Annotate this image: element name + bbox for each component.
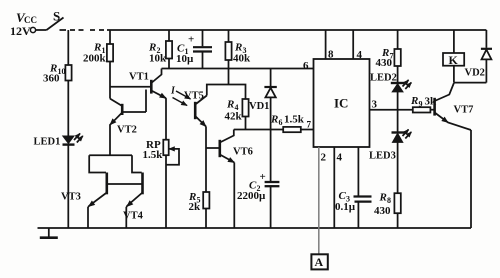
svg-text:8: 8: [387, 196, 391, 205]
diode VD1: [270, 69, 272, 88]
wire VT7 emitter to ground rail: [470, 130, 472, 228]
transistor VT4: [141, 173, 144, 195]
resistor R2: [166, 41, 172, 59]
wire RP to ground rail: [165, 155, 167, 228]
potentiometer RP: [163, 140, 168, 156]
light arrows into VT5: [173, 91, 191, 106]
wire R10 column top: [67, 30, 69, 65]
svg-text:+: +: [260, 171, 266, 183]
wire VT5/R4 bracket: [207, 85, 246, 100]
svg-text:12V: 12V: [10, 24, 31, 38]
svg-text:IC: IC: [334, 96, 348, 111]
transistor VT3: [106, 173, 109, 195]
wire R3 column top: [228, 30, 230, 42]
wire pin 4 top: [352, 30, 354, 59]
svg-text:1.5k: 1.5k: [143, 149, 164, 161]
svg-text:VT1: VT1: [129, 72, 149, 83]
wire pin7 line: [234, 129, 314, 131]
wire R10 to LED1: [67, 81, 69, 137]
resistor R5: [203, 192, 209, 209]
svg-text:VT3: VT3: [61, 192, 81, 203]
terminal A box: [311, 254, 327, 269]
resistor R6: [283, 127, 301, 132]
wire R1 to VT1 base node: [109, 62, 111, 99]
wire pin 8: [325, 30, 327, 59]
svg-text:R: R: [379, 192, 387, 204]
wire R2 bottom: [168, 59, 170, 69]
wire LED3 to R8: [397, 142, 399, 193]
wire pin 2 to A: [318, 147, 320, 254]
wire K to VT7 collector node: [453, 66, 455, 83]
svg-text:+: +: [188, 34, 194, 46]
svg-text:A: A: [315, 255, 324, 269]
svg-text:S: S: [53, 9, 60, 24]
wire R2 column top: [168, 30, 170, 41]
wire VT2 emitter down: [109, 128, 111, 155]
wire R7 column top: [397, 30, 399, 49]
wire VT3 collector branch: [89, 155, 106, 172]
wire LED2 to pin3 node: [397, 92, 399, 110]
wire top rail: [107, 29, 486, 31]
LED D1 (LED1): [63, 136, 74, 143]
svg-text:1.5k: 1.5k: [284, 114, 305, 126]
wire LED1 to ground rail: [67, 145, 69, 228]
svg-text:R: R: [270, 114, 278, 126]
svg-text:4: 4: [337, 152, 343, 164]
resistor R1: [107, 44, 113, 62]
capacitor C2: [265, 181, 280, 183]
resistor R3: [225, 42, 231, 60]
svg-text:2: 2: [321, 152, 327, 164]
svg-text:10µ: 10µ: [176, 53, 194, 65]
svg-text:10k: 10k: [149, 53, 167, 65]
svg-text:VD1: VD1: [249, 101, 269, 112]
wire R8 to ground: [397, 213, 399, 228]
wire C1 column top: [202, 30, 204, 46]
svg-text:7: 7: [307, 120, 312, 130]
wire VT3-VT4 base link: [107, 183, 143, 185]
wire pin3 node to LED3: [397, 110, 399, 132]
wire VT3/VT4 tee: [89, 154, 132, 156]
transistor VT1: [150, 80, 153, 94]
wire R1 column top: [109, 30, 111, 44]
wire R7 to LED2: [397, 66, 399, 83]
wire VT5 emitter / VT6 base column: [205, 127, 207, 193]
LED D3 (LED3): [392, 131, 405, 133]
svg-text:VT6: VT6: [233, 147, 253, 158]
wire VT3 emitter to ground: [87, 207, 89, 228]
phototransistor VT5: [194, 102, 197, 119]
svg-text:R: R: [226, 99, 234, 111]
svg-text:2k: 2k: [189, 201, 202, 213]
wire K column top: [453, 30, 455, 53]
wire pin 4 bottom: [333, 147, 335, 228]
svg-text:VT7: VT7: [454, 105, 474, 116]
svg-text:0.1µ: 0.1µ: [335, 201, 356, 213]
transistor VT2: [121, 104, 124, 115]
transistor VT7: [433, 98, 436, 116]
relay K box: [443, 53, 464, 66]
wire R4 bottom: [245, 117, 247, 130]
wire VT1 emitter to RP: [165, 98, 167, 140]
svg-text:42k: 42k: [225, 111, 243, 123]
resistor R7: [394, 49, 400, 66]
capacitor C1: [193, 46, 212, 48]
transistor VT6: [206, 147, 219, 149]
wire pin6 line: [162, 68, 314, 70]
ground symbol: [48, 228, 50, 237]
LED D2 (LED2): [391, 82, 404, 84]
resistor R4: [242, 99, 248, 117]
svg-text:I: I: [170, 86, 176, 97]
wire C2 to ground: [270, 186, 272, 228]
svg-text:LED2: LED2: [370, 73, 397, 84]
wire K node to VD2: [454, 82, 487, 84]
svg-text:4: 4: [357, 49, 363, 61]
svg-text:R: R: [410, 95, 418, 107]
svg-text:6: 6: [303, 60, 309, 72]
svg-text:430: 430: [374, 205, 391, 217]
wire VT2 base link: [124, 90, 147, 113]
diode VD2: [481, 48, 492, 50]
wire VT4 collector branch: [132, 155, 142, 172]
svg-text:200k: 200k: [83, 53, 107, 65]
wire top rail dashed section: [60, 29, 105, 31]
wire VT1 base line: [110, 86, 150, 88]
node VCC terminal: [30, 27, 35, 32]
svg-text:VT4: VT4: [123, 211, 144, 222]
wire R5 to ground: [205, 209, 207, 229]
wire VCC lead: [36, 29, 47, 31]
svg-text:VT2: VT2: [117, 125, 137, 136]
wire VT6 emitter to ground: [233, 163, 235, 229]
svg-text:430: 430: [376, 57, 393, 69]
wire pin 3 line: [370, 109, 413, 111]
svg-text:9: 9: [419, 100, 423, 109]
switch S blade: [47, 18, 64, 31]
resistor R9: [413, 107, 431, 112]
svg-text:40k: 40k: [233, 53, 251, 65]
svg-text:3: 3: [372, 99, 378, 111]
svg-text:VD2: VD2: [465, 68, 485, 79]
svg-text:2200µ: 2200µ: [237, 190, 266, 202]
svg-text:LED3: LED3: [369, 151, 396, 162]
wire C3 branch: [357, 147, 359, 196]
svg-text:LED1: LED1: [34, 137, 61, 148]
svg-text:360: 360: [43, 73, 60, 85]
ground rail: [38, 227, 472, 229]
svg-text:3k: 3k: [425, 96, 438, 108]
capacitor C3: [354, 195, 372, 197]
IC U1 box: [314, 59, 370, 147]
svg-text:VT5: VT5: [184, 91, 204, 102]
resistor R10: [65, 65, 71, 81]
wire right rail: [485, 30, 487, 48]
svg-text:K: K: [449, 53, 459, 67]
wire R3 bottom to VT5 bracket: [228, 60, 230, 85]
wire VT4 emitter to ground: [125, 207, 127, 228]
resistor R8: [394, 193, 400, 213]
svg-text:6: 6: [279, 118, 283, 127]
svg-text:8: 8: [328, 49, 334, 61]
